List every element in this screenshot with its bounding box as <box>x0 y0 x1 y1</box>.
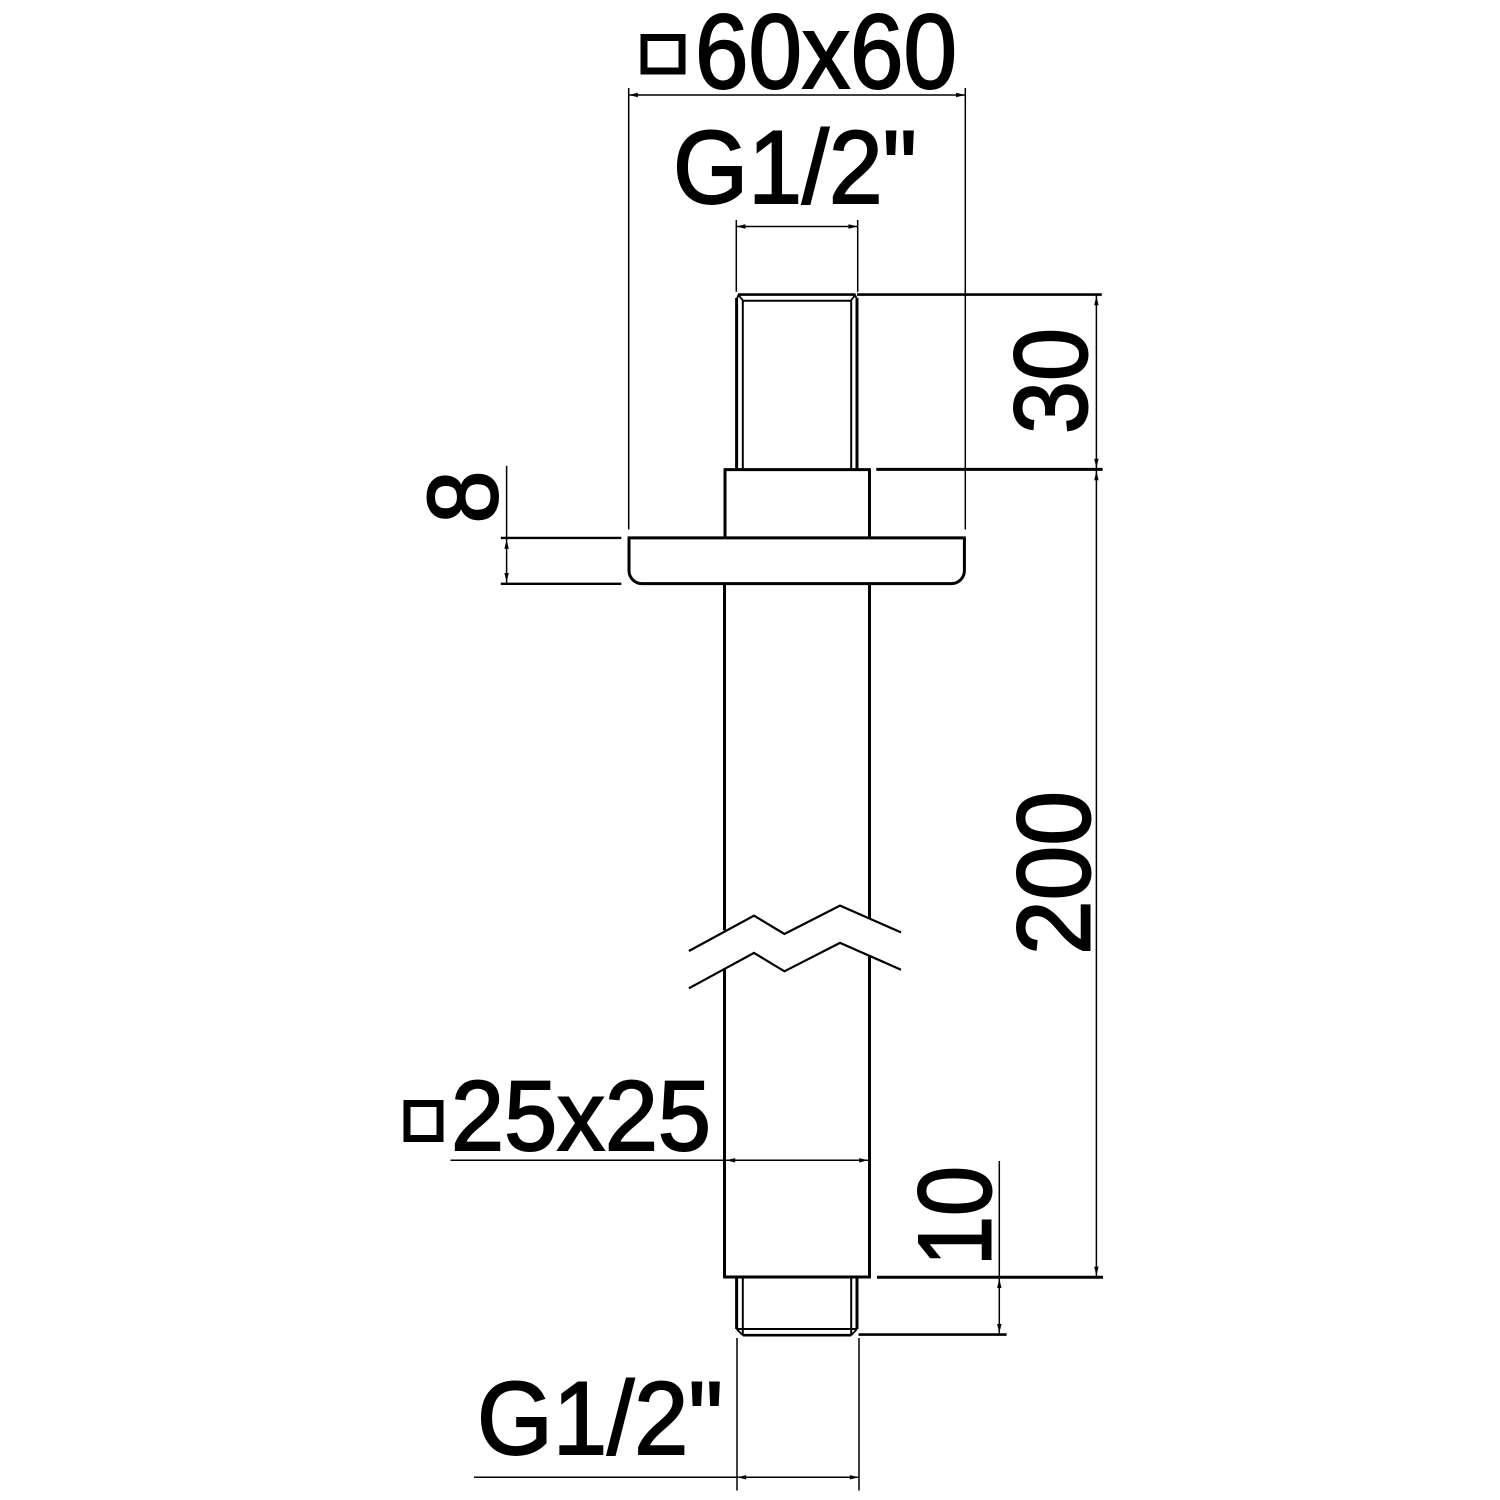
dim 8 extension line bottom <box>501 583 622 585</box>
bottom thread G1/2 nipple <box>737 1277 857 1335</box>
dim G1/2 bottom extension line right <box>858 1338 860 1491</box>
svg-text:G1/2": G1/2" <box>673 110 917 226</box>
dim 200 arrow down <box>1094 1267 1098 1276</box>
dim G1/2 top dimension line <box>736 226 857 228</box>
dim 30 arrow down <box>1094 459 1098 468</box>
dim 30 arrow up <box>1094 296 1098 305</box>
dim 8 extension line top <box>501 537 622 539</box>
dim 60x60 extension line left <box>628 88 630 530</box>
dim G1/2 bottom arrow right <box>850 1475 859 1479</box>
dim G1/2 bottom dimension line <box>474 1476 859 1478</box>
dim 200 arrow up <box>1094 471 1098 480</box>
dim G1/2 top extension line left <box>735 220 737 292</box>
svg-text:30: 30 <box>994 328 1110 434</box>
dim 60x60 arrow right <box>956 93 965 97</box>
svg-text:200: 200 <box>997 791 1113 955</box>
dim 10 arrow down <box>997 1324 1001 1333</box>
pipe (25x25 square tube) <box>723 584 871 1277</box>
dim G1/2 bottom extension line left <box>736 1338 738 1491</box>
dim 60x60 dimension line <box>629 94 966 96</box>
dim 25x25 arrow left <box>726 1158 735 1162</box>
dim 25x25 dimension line <box>451 1159 869 1161</box>
dim 30/200 extension line (collar top, continuation) <box>876 468 1102 471</box>
dim G1/2 top extension line right <box>857 220 859 292</box>
square symbol for 60x60 label <box>644 38 682 72</box>
dim G1/2 top arrow right <box>849 224 858 228</box>
square symbol for 25x25 label <box>407 1104 440 1139</box>
break symbol zigzag lower <box>689 943 901 988</box>
collar (square tube top section) <box>724 470 871 538</box>
top thread G1/2 nipple <box>737 295 857 470</box>
dim 8 dimension line <box>506 466 508 584</box>
dim 60x60 extension line right <box>964 88 966 530</box>
dim 8 arrow up <box>504 540 508 549</box>
dim 200 extension line (pipe bottom, continuation) <box>877 1276 1103 1279</box>
svg-text:G1/2": G1/2" <box>477 1361 723 1477</box>
dim 30 dimension line <box>1095 295 1097 470</box>
ceiling flange plate <box>628 538 966 584</box>
dim 10 extension line bottom (nipple bottom, continuation) <box>859 1333 1007 1336</box>
dim G1/2 top arrow left <box>736 224 745 228</box>
dim 60x60 arrow left <box>629 93 638 97</box>
break symbol zigzag upper <box>689 906 901 951</box>
svg-text:8: 8 <box>407 471 518 524</box>
dim 25x25 arrow right <box>859 1158 868 1162</box>
dim 30 extension line (thread top, continuation) <box>857 293 1102 296</box>
dim 10 dimension line <box>998 1161 1000 1335</box>
dim 8 arrow down <box>504 573 508 582</box>
dim 200 dimension line <box>1095 469 1097 1277</box>
dim 10 arrow up <box>997 1279 1001 1288</box>
dim G1/2 bottom arrow left <box>737 1475 746 1479</box>
svg-text:25x25: 25x25 <box>451 1060 711 1171</box>
svg-text:10: 10 <box>898 1166 1014 1266</box>
